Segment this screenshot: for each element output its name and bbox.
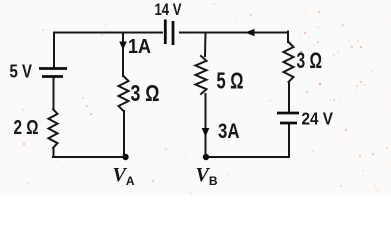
arrow current 3A pointing down: [202, 128, 210, 137]
arrow current top pointing left: [245, 29, 255, 37]
resistor 2 ohm zigzag: [49, 109, 58, 148]
wire right vertical middle: [288, 82, 290, 112]
svg-text:24 V: 24 V: [302, 109, 334, 129]
svg-text:1A: 1A: [128, 36, 151, 58]
wire branch A upper with 1A arrow: [122, 33, 124, 77]
svg-text:5 Ω: 5 Ω: [217, 68, 244, 94]
wire right vertical upper: [287, 32, 289, 43]
wire top-left segment: [54, 32, 162, 34]
battery 5V top plate: [39, 67, 67, 70]
resistor 3 ohm right zigzag: [284, 42, 294, 82]
wire bottom-right segment: [206, 156, 289, 158]
battery 24V top plate: [277, 112, 299, 115]
svg-text:3 Ω: 3 Ω: [131, 80, 160, 106]
svg-text:3A: 3A: [218, 119, 240, 143]
node VB dot: [203, 154, 209, 160]
wire left vertical lower: [53, 148, 55, 157]
resistor 3 ohm middle zigzag: [119, 76, 129, 111]
battery 14V right plate: [172, 21, 175, 45]
wire left vertical upper: [53, 33, 55, 68]
wire right vertical lower: [288, 125, 290, 158]
wire branch B upper: [204, 33, 207, 57]
wire branch B lower with 3A arrow: [205, 94, 207, 157]
arrow current 1A pointing down: [119, 42, 127, 51]
wire branch A lower: [123, 111, 125, 157]
node VA dot: [122, 154, 128, 160]
svg-text:5 V: 5 V: [10, 62, 33, 82]
wire bottom-left segment: [53, 156, 126, 158]
wire top-right segment: [180, 32, 288, 34]
wire left vertical middle: [53, 78, 55, 109]
svg-text:2 Ω: 2 Ω: [14, 117, 39, 139]
battery 5V bottom plate: [42, 75, 63, 78]
svg-text:3 Ω: 3 Ω: [297, 48, 323, 73]
battery 24V bottom plate: [280, 122, 297, 125]
resistor 5 ohm zigzag: [196, 56, 207, 94]
battery 14V left plate: [164, 20, 167, 45]
svg-text:14 V: 14 V: [155, 1, 182, 19]
